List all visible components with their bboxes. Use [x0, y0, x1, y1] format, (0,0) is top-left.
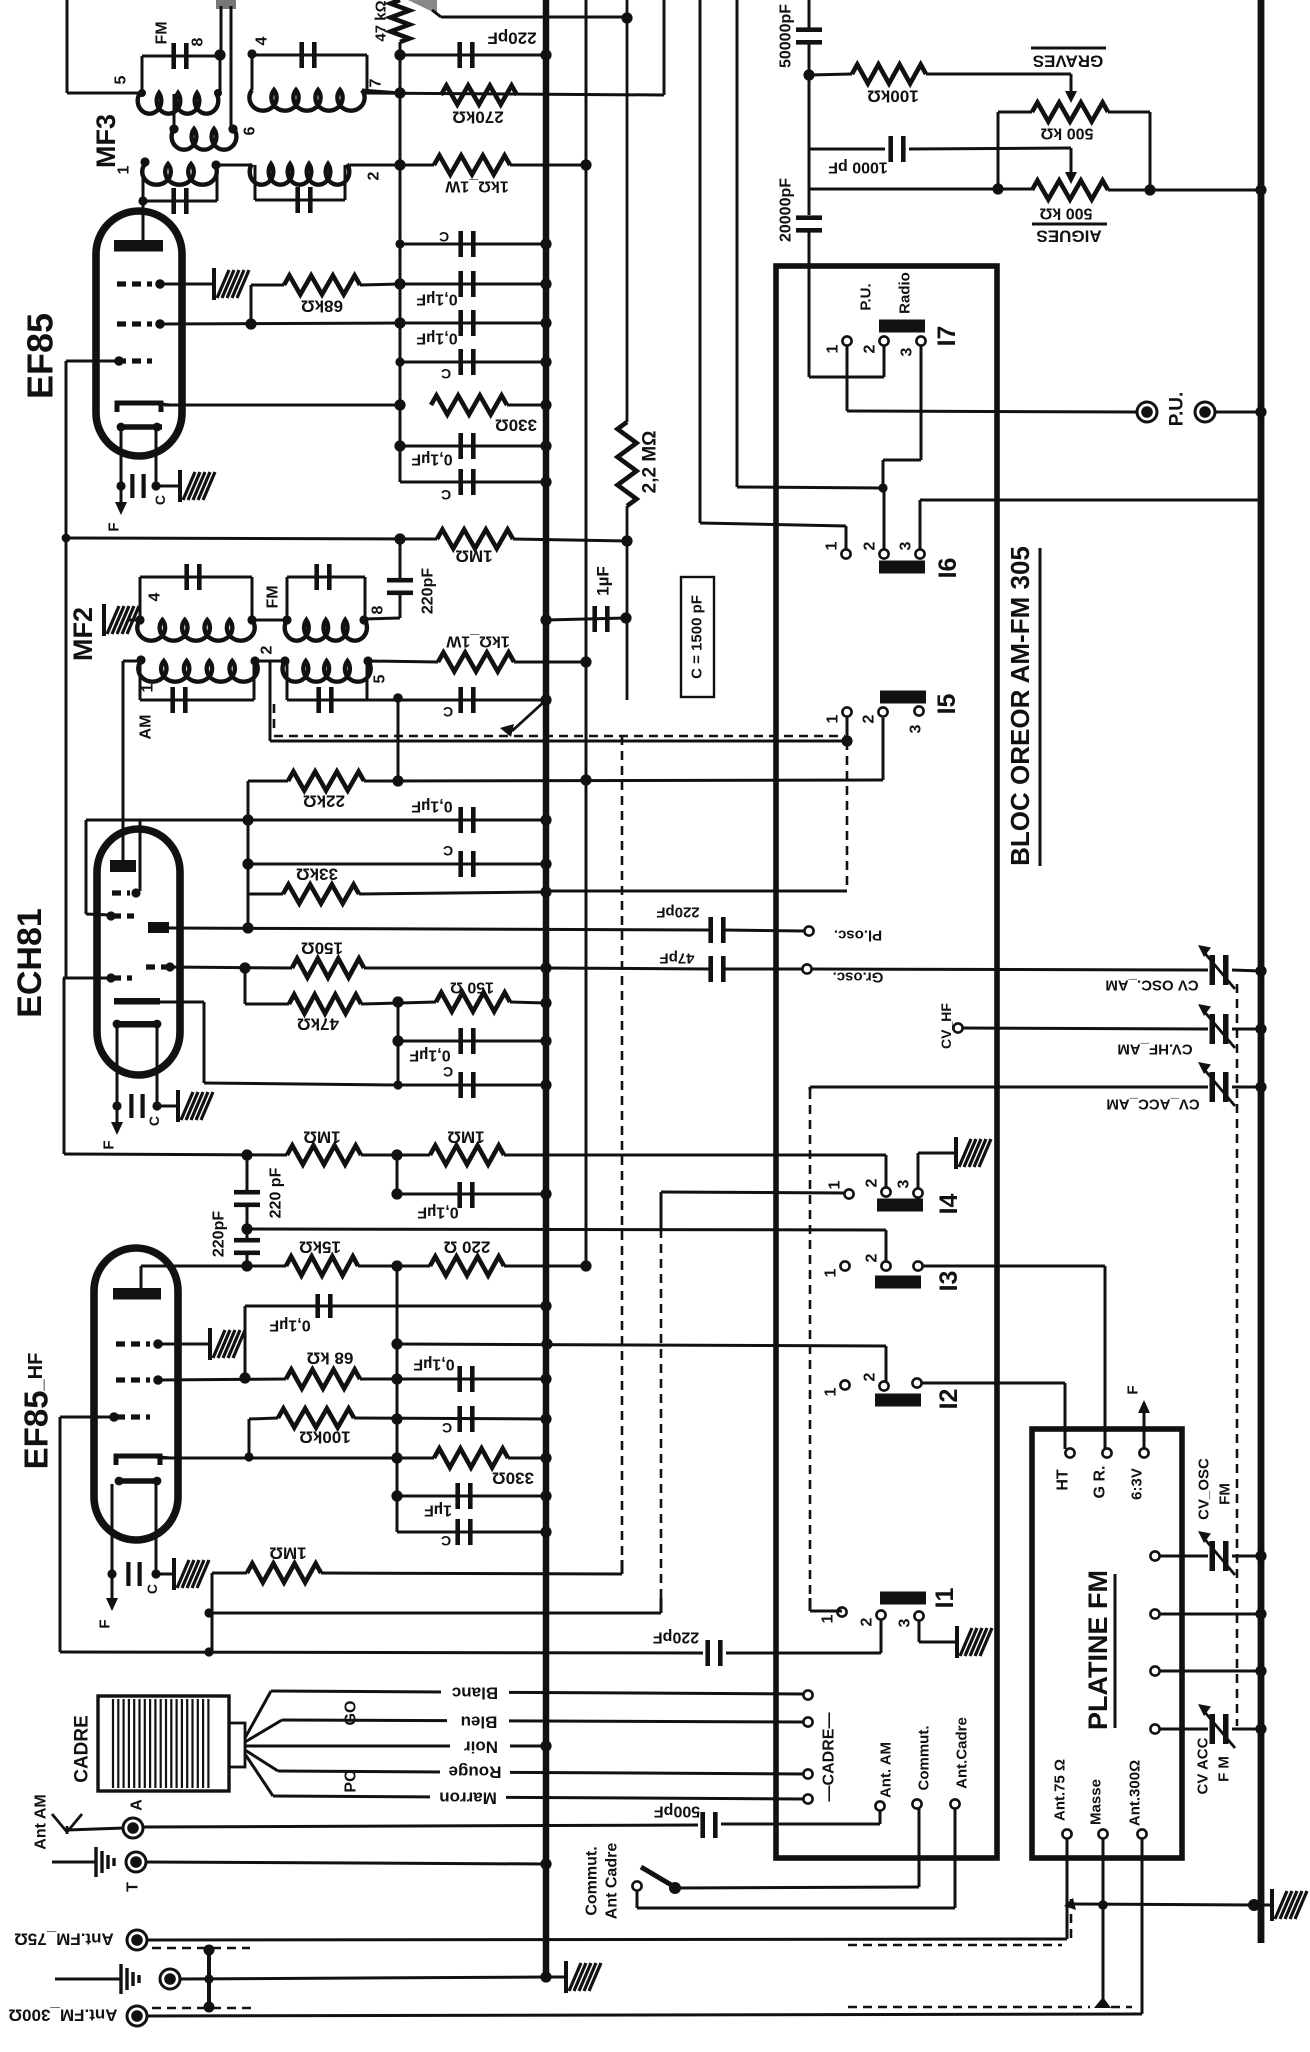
ground cathode EF85 [180, 470, 215, 502]
screen bracket HF [116, 1478, 160, 1484]
svg-text:CV_OSC: CV_OSC [1196, 1458, 1213, 1520]
node bus 968 [540, 962, 551, 973]
wire I5 c1 stub [846, 717, 849, 741]
wire 22k row [248, 780, 288, 783]
wire 300 dashed [152, 2007, 253, 2010]
node graves-l [992, 183, 1003, 194]
jack earth-mid [160, 1969, 180, 1989]
trimmer CV ACC FM [1198, 1704, 1235, 1748]
terminal cadre Marron [803, 1794, 812, 1803]
svg-text:2: 2 [862, 541, 879, 550]
wire 0,1uF row446 [400, 445, 546, 448]
svg-text:1000 pF: 1000 pF [828, 159, 888, 176]
terminal Ant.Cadre [950, 1799, 959, 1808]
wire 68k right [360, 284, 400, 285]
svg-text:Ant Cadre: Ant Cadre [604, 1843, 621, 1920]
ground g1 HF [210, 1328, 245, 1360]
grid g2 EF85 [117, 321, 152, 326]
svg-text:A: A [129, 1799, 146, 1811]
contact I7-2 [879, 336, 888, 345]
resistor 1kΩ-1W [434, 156, 510, 175]
potentiometer 500kΩ GRAVES [1032, 103, 1108, 122]
node bus aigues [1255, 184, 1266, 195]
svg-text:I5: I5 [933, 693, 961, 714]
node row323 [394, 317, 405, 328]
switch I1 bar [880, 1592, 926, 1605]
node 247 1155 [241, 1149, 252, 1160]
node anode row x248 [242, 922, 253, 933]
inductor MF3 sec b [250, 164, 350, 185]
wire 2 row [350, 164, 434, 167]
svg-text:330Ω: 330Ω [495, 416, 537, 435]
wire g1 gnd [158, 1343, 210, 1346]
tube ECH81 [97, 829, 180, 1075]
wire Marron [273, 1796, 803, 1799]
svg-text:1: 1 [825, 714, 842, 723]
wire to hatch [156, 485, 180, 488]
capacitor 220pF coupling [387, 578, 413, 583]
wire to hatch HF [156, 1573, 174, 1576]
wire mid2 [247, 1265, 286, 1268]
svg-text:GO: GO [343, 1701, 360, 1726]
node 398 capline [393, 693, 403, 703]
wire sec link [216, 164, 252, 167]
wire cath row HF [156, 1456, 158, 1458]
node bus masse [1248, 1899, 1260, 1911]
wire 100k right [354, 1418, 546, 1419]
svg-text:CV.HF_AM: CV.HF_AM [1117, 1041, 1192, 1058]
wire graves right [1108, 111, 1150, 114]
svg-text:—CADRE—: —CADRE— [821, 1713, 838, 1802]
svg-text:500 kΩ: 500 kΩ [1039, 205, 1092, 222]
wire 1000pF row [809, 148, 885, 151]
wire gnd stub right [1254, 1904, 1272, 1907]
node 397 1419 [391, 1413, 402, 1424]
capacitor C y700 [398, 699, 546, 702]
wire triode grid row [170, 967, 292, 968]
node 1266 [241, 1260, 252, 1271]
capacitor 50000pF [796, 27, 822, 32]
wire gD left [63, 977, 111, 980]
svg-text:1: 1 [140, 683, 157, 692]
wire FM t1 [1160, 1555, 1208, 1558]
svg-text:4: 4 [147, 592, 164, 601]
svg-text:Ant.FM_300Ω: Ant.FM_300Ω [8, 2006, 117, 2025]
contact I3-2 [881, 1261, 890, 1270]
capacitor C 1532 [455, 1519, 460, 1545]
wire row1652 [60, 1652, 703, 1653]
wire 8 to 220pF [364, 618, 400, 619]
wire cadre fan [245, 1691, 271, 1738]
wire link left [220, 6, 223, 56]
wire link right [230, 6, 233, 129]
svg-text:47 kΩ: 47 kΩ [373, 0, 390, 41]
wire ant75 shield dashed [848, 1944, 1062, 1947]
wire 330 bus [508, 1457, 546, 1460]
svg-text:100kΩ: 100kΩ [867, 87, 918, 106]
wire Noir [244, 1745, 546, 1748]
svg-text:C: C [441, 487, 451, 503]
wire linkage drop I1 [809, 1090, 812, 1598]
node bus Noir [540, 1740, 551, 1751]
capacitor 0,1µF ECH [458, 807, 463, 833]
wire FM t3 [1160, 1670, 1261, 1673]
node bar junction [204, 1974, 213, 1983]
svg-text:2: 2 [864, 1253, 881, 1262]
wire row1346 to I2 [397, 1344, 886, 1346]
label Blanc [441, 1681, 509, 1704]
inductor MF2 sec1 [138, 661, 257, 682]
inductor CADRE frame antenna [98, 1696, 245, 1791]
ground bus bottom [566, 1961, 601, 1993]
resistor 2,2MΩ [618, 422, 637, 506]
wire 33k to bus [359, 892, 546, 894]
svg-text:T: T [125, 1882, 142, 1892]
node pin4 [247, 49, 256, 58]
contact I7-3 [916, 336, 925, 345]
svg-text:33kΩ: 33kΩ [296, 865, 338, 884]
wire 75 dashed [152, 1947, 250, 1950]
svg-text:1: 1 [820, 1614, 837, 1623]
capacitor 220pF g1 [234, 1190, 260, 1195]
wire I7 c1c2 [846, 346, 849, 377]
contact I4-1 [844, 1189, 853, 1198]
node bus1458 [540, 1452, 551, 1463]
wire PU stub [846, 377, 849, 411]
wire g3 to ground [160, 283, 214, 286]
node 1229 [241, 1223, 252, 1234]
contact I4-2 [881, 1187, 890, 1196]
wire CV ACC row [810, 1086, 1208, 1089]
contact I1-1 [837, 1607, 846, 1616]
wire C row362 [400, 361, 546, 364]
wire 220pF top [399, 539, 402, 579]
wire g2 row [160, 323, 400, 324]
svg-text:FM: FM [1217, 1483, 1234, 1505]
capacitor MF3 sec cap a [143, 200, 217, 203]
terminal 6,3V [1139, 1448, 1148, 1457]
svg-text:P.U.: P.U. [858, 283, 875, 310]
svg-text:Gr.osc.: Gr.osc. [833, 969, 884, 986]
svg-text:C: C [442, 1420, 452, 1436]
svg-text:P.U.: P.U. [1167, 392, 1188, 427]
svg-text:50000pF: 50000pF [778, 4, 795, 68]
node 212 1613 [204, 1608, 213, 1617]
wire chain mid [246, 1205, 249, 1240]
node grid 245 [239, 962, 250, 973]
wire 220 to rail [504, 1265, 586, 1268]
svg-text:15kΩ: 15kΩ [299, 1238, 341, 1257]
capacitor C 1419 [457, 1406, 462, 1432]
filament arrow F HF [106, 1598, 118, 1611]
wire g1 left AVC [66, 360, 119, 363]
node 1652 dot [204, 1647, 213, 1656]
svg-text:220pF: 220pF [211, 1211, 228, 1257]
wire g3 left [60, 1416, 114, 1419]
node cath legs [116, 481, 125, 490]
node pin8 top [214, 49, 225, 60]
svg-text:Ant.FM_75Ω: Ant.FM_75Ω [14, 1930, 114, 1949]
node I5 c1 [841, 735, 852, 746]
wire row1306 [245, 1305, 546, 1308]
wire 47k to node [361, 1002, 436, 1004]
wire pin8 vert [219, 55, 222, 93]
wire 0,1uF row323 [400, 322, 546, 325]
wire I4 c1 line [661, 1192, 845, 1193]
contact I1-3 [914, 1611, 923, 1620]
terminal Ant.AM [875, 1801, 884, 1810]
node x400 y165 [394, 159, 405, 170]
ground I4 [956, 1137, 991, 1169]
node wiper/2.2M junction [621, 12, 632, 23]
wire C row864 [248, 863, 546, 866]
wire 220pF row [400, 54, 546, 57]
svg-text:I1: I1 [931, 1587, 959, 1608]
svg-text:220pF: 220pF [420, 568, 437, 614]
wire 220pF chain top [246, 1155, 249, 1192]
svg-text:G R.: G R. [1092, 1466, 1109, 1499]
switch I3 bar [875, 1276, 921, 1289]
wire 7 link [362, 90, 400, 93]
resistor 22kΩ [288, 772, 364, 791]
node 47k/220pF [394, 49, 405, 60]
svg-text:Ant.Cadre: Ant.Cadre [954, 1717, 971, 1789]
node HF cath legs [107, 1569, 116, 1578]
capacitor C cathode EF85 [130, 474, 134, 498]
switch I4 bar [877, 1199, 923, 1212]
svg-text:0,1µF: 0,1µF [269, 1317, 310, 1334]
terminal Ant 300 [1137, 1829, 1146, 1838]
wire x212 down [211, 1573, 214, 1652]
cathode EF85 [117, 403, 161, 412]
wire MF3 pin5 left [66, 0, 69, 93]
node bus cvosc [1255, 965, 1266, 976]
capacitor 0,1µF 1379 [457, 1366, 462, 1392]
svg-text:Ant.300Ω: Ant.300Ω [1127, 1760, 1144, 1826]
ground right bus [1272, 1889, 1307, 1921]
grid g2 HF [116, 1377, 150, 1382]
node HT 1k [580, 159, 591, 170]
resistor 330Ω HF [434, 1449, 508, 1468]
svg-text:1MΩ: 1MΩ [447, 1128, 484, 1147]
ground cathode HF [174, 1558, 209, 1590]
node I6 junction [878, 483, 887, 492]
terminal cadre Rouge [803, 1769, 812, 1778]
node sec a right [211, 160, 220, 169]
svg-text:Ant.75 Ω: Ant.75 Ω [1052, 1759, 1069, 1821]
wire 68k right HF [360, 1378, 546, 1381]
svg-text:1: 1 [825, 344, 842, 353]
wire AVC line [66, 538, 437, 539]
inductor MF2 sec2 [282, 661, 370, 682]
wire 150b bus [510, 1002, 546, 1003]
svg-text:F: F [1125, 1385, 1142, 1394]
svg-text:1µF: 1µF [594, 566, 613, 596]
anode triode ECH81 [110, 860, 136, 872]
svg-text:500 kΩ: 500 kΩ [1040, 125, 1093, 142]
wire 47k-270k vert [399, 55, 402, 93]
svg-text:1MΩ: 1MΩ [303, 1128, 340, 1147]
capacitor MF3 tank cap 4 [252, 54, 367, 57]
node bus fm1 [1255, 1550, 1266, 1561]
wire I6 c2 line [736, 0, 739, 487]
wire C row y244 [400, 243, 546, 246]
node row362 [395, 357, 404, 366]
cathode HF [116, 1456, 160, 1465]
wire hexode anode row [169, 928, 711, 930]
node bus 892 [540, 886, 551, 897]
wire I3 c3 line [923, 1265, 1105, 1268]
pot wiper AIGUES [1065, 172, 1077, 184]
capacitor 1µF HF [455, 1483, 460, 1509]
wire C row482 [400, 481, 546, 484]
wire 300 line [146, 2014, 1142, 2016]
svg-text:0,1µF: 0,1µF [411, 798, 452, 815]
node row446 [394, 440, 405, 451]
wire gB hook [85, 820, 88, 914]
svg-text:GRAVES: GRAVES [1033, 52, 1104, 71]
wire coupling stub [173, 94, 176, 129]
svg-text:2: 2 [864, 1178, 881, 1187]
svg-text:2: 2 [861, 714, 878, 723]
resistor 150Ω a [292, 959, 364, 978]
cathode hexode ECH81 [114, 1021, 160, 1028]
node bus cvacc [1255, 1081, 1266, 1092]
resistor 100kΩ [278, 1409, 354, 1428]
node bus fm2 [1255, 1608, 1266, 1619]
wire linkage x660 [660, 1229, 663, 1598]
node bus fm3 [1255, 1665, 1266, 1676]
svg-text:47kΩ: 47kΩ [297, 1015, 339, 1034]
svg-text:Blanc: Blanc [452, 1684, 498, 1703]
resistor 1MΩ AVC [437, 530, 513, 549]
wire I1 c3 gnd [918, 1621, 921, 1642]
wire anode feed [142, 162, 145, 240]
wire 100k row [809, 74, 852, 75]
wire masse gnd row [1064, 1898, 1076, 1910]
resistor 1kΩ-1W AM [368, 661, 438, 662]
antenna Ant AM [52, 1814, 82, 1832]
switch arm to linkage [512, 700, 546, 731]
wire 33k row [248, 893, 283, 896]
svg-text:150 Ω: 150 Ω [450, 979, 494, 996]
wire antcadre line [636, 1891, 639, 1908]
trimmer CV OSC AM [1198, 945, 1235, 989]
svg-text:8: 8 [370, 605, 387, 614]
svg-text:3: 3 [899, 347, 916, 356]
wire 47k row [244, 968, 247, 1004]
svg-text:HT: HT [1055, 1469, 1072, 1491]
terminal GR [1102, 1448, 1111, 1457]
block PLATINE FM box [1032, 1429, 1182, 1858]
svg-text:Marron: Marron [439, 1789, 497, 1808]
wire 300 shield dashed [848, 2006, 1090, 2009]
node coil ends [138, 89, 146, 97]
svg-text:1MΩ: 1MΩ [455, 547, 492, 566]
earth mid [55, 1978, 120, 1981]
wire mf2 link [252, 619, 287, 622]
wire earth line [179, 1977, 546, 1979]
wire gA up [139, 820, 142, 891]
wire CV_HF row [963, 1028, 1208, 1029]
contact I3-3 [913, 1261, 922, 1270]
wire 1M HF hook [212, 1572, 247, 1575]
wire to hatch ECH [157, 1105, 178, 1108]
svg-text:1: 1 [116, 165, 133, 174]
node ech cath legs [112, 1101, 121, 1110]
svg-text:150Ω: 150Ω [301, 939, 343, 958]
capacitor 500pF [700, 1812, 705, 1838]
svg-text:220pF: 220pF [656, 904, 699, 921]
wire 1M to I4 [504, 1154, 886, 1157]
terminal HT [1065, 1448, 1074, 1457]
wire F drop HF [111, 1574, 114, 1598]
contact I7-1 [842, 336, 851, 345]
wire right supply bus [1258, 0, 1265, 1943]
wire graves left [998, 111, 1032, 114]
wire 2.2M bottom [626, 506, 629, 700]
terminal cadre Bleu [803, 1717, 812, 1726]
node 397 1155 [391, 1149, 402, 1160]
resistor 1MΩ HF [247, 1564, 321, 1583]
svg-text:5: 5 [113, 75, 130, 84]
earth T [52, 1861, 95, 1864]
node bus 1003 [540, 997, 551, 1008]
svg-text:AM: AM [138, 715, 155, 740]
node x398 1002 [392, 996, 403, 1007]
wire cathode out [164, 404, 400, 407]
wire MF3 link cut stub [216, 0, 236, 9]
svg-text:C: C [144, 1584, 160, 1594]
wire linkage x622 [621, 736, 624, 1556]
wire 220pF to I1 [726, 1652, 881, 1655]
svg-text:F M: F M [1216, 1756, 1233, 1782]
capacitor MF2 secA cap [140, 699, 254, 702]
node bus 820 [540, 814, 551, 825]
node AVC 2.2M [621, 535, 632, 546]
node bus1379 [540, 1373, 551, 1384]
resistor 100kΩ tone [852, 65, 926, 84]
inductor MF3 sec a [142, 164, 217, 185]
wire I2 c3 line [922, 1382, 1065, 1385]
grid gA ECH81 [112, 890, 130, 895]
resistor 68kΩ [284, 276, 360, 295]
capacitor MF2 secB cap [287, 699, 398, 702]
capacitor 0,1µF osc [458, 1028, 463, 1054]
wire chain bot [246, 1253, 249, 1266]
svg-text:C: C [441, 1533, 451, 1549]
wire F drop ECH [116, 1106, 119, 1122]
resistor 33kΩ [283, 885, 359, 904]
svg-text:2: 2 [862, 344, 879, 353]
svg-text:F: F [101, 1140, 118, 1149]
svg-text:Rouge: Rouge [449, 1763, 502, 1782]
grid gD ECH81 [112, 975, 132, 980]
node g2 68k [245, 318, 256, 329]
svg-text:FM: FM [154, 21, 171, 44]
node 249 1457 [244, 1452, 253, 1461]
inductor MF2 prim4 [137, 620, 254, 641]
wire sec link [255, 660, 285, 663]
svg-text:2: 2 [259, 645, 276, 654]
wire to CV OSC AM [812, 969, 1208, 970]
wire row405 to bus [507, 404, 546, 407]
jack P.U. b [1195, 402, 1215, 422]
svg-text:3: 3 [898, 541, 915, 550]
terminal FM side 2 [1150, 1609, 1159, 1618]
wire F arrow FM [1143, 1413, 1146, 1448]
svg-text:0,1µF: 0,1µF [411, 451, 452, 468]
